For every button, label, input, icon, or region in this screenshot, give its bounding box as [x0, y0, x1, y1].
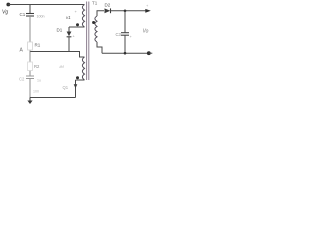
wire top rail from Vg to primary winding top — [8, 4, 84, 6]
transformer T1 reset winding n2 — [82, 57, 84, 80]
ground symbol at bottom rail left end — [27, 98, 32, 105]
wire n2 bottom lead going left — [76, 79, 85, 81]
svg-text:C2: C2 — [19, 77, 25, 82]
wire output bottom rail — [102, 52, 148, 54]
resistor R1 — [28, 42, 33, 50]
svg-text:Vg: Vg — [2, 10, 8, 16]
wire bottom rail — [30, 97, 76, 99]
transformer T1 primary winding n1 — [82, 5, 84, 28]
svg-text:iM: iM — [60, 64, 65, 69]
junction node top of C3 — [124, 10, 127, 13]
svg-text:R2: R2 — [34, 64, 40, 69]
capacitor C2 — [26, 76, 34, 79]
capacitor C1 — [26, 14, 34, 17]
output negative terminal dot — [147, 51, 152, 55]
svg-text:+: + — [75, 9, 78, 14]
svg-text:+: + — [73, 35, 76, 39]
wire output top rail from D2 to terminal — [111, 10, 147, 12]
wire node A horizontal to D1 junction and step to winding n2 top — [30, 52, 85, 58]
svg-text:100n: 100n — [37, 15, 45, 19]
svg-text:D1: D1 — [57, 28, 63, 33]
wire from C1 down through R1 to node A — [29, 16, 31, 52]
svg-text:T1: T1 — [92, 1, 98, 6]
wire n1 bottom lead going left — [69, 26, 85, 28]
polarity dot of winding n3 — [92, 21, 95, 24]
transformer T1 core — [87, 2, 89, 81]
output positive terminal arrow — [145, 9, 151, 13]
diode D1 — [67, 32, 72, 37]
capacitor C3 — [121, 33, 129, 36]
svg-text:A: A — [20, 48, 24, 54]
wire n3 bottom lead down to output bottom rail — [97, 42, 102, 53]
wire node A down through R2 to C2 — [29, 52, 31, 77]
svg-text:1u: 1u — [37, 79, 41, 83]
polarity dot of winding n1 — [76, 23, 79, 26]
transistor Q1 switch branch with current arrow — [74, 80, 78, 98]
polarity dot of winding n2 — [76, 76, 79, 79]
diode D2 — [105, 8, 111, 13]
svg-text:+: + — [146, 3, 149, 8]
wire C1 branch stub from top rail — [29, 5, 31, 14]
wire C3 branch lower — [124, 35, 126, 53]
wire from D1 cathode down to node A line — [68, 37, 70, 52]
resistor R2 — [28, 62, 33, 71]
svg-text:v1: v1 — [66, 15, 71, 20]
svg-text:R1: R1 — [35, 43, 41, 48]
node Vg input terminal dot — [6, 3, 10, 7]
wire from n1 lead down to diode D1 — [68, 27, 70, 32]
svg-text:Q1: Q1 — [63, 85, 69, 90]
svg-text:C1: C1 — [20, 12, 26, 17]
wire C3 branch upper — [124, 11, 126, 33]
svg-text:100: 100 — [33, 90, 39, 94]
junction node bottom of C3 — [124, 52, 127, 55]
svg-text:Vo: Vo — [143, 29, 149, 35]
wire n3 top lead up to output top rail — [97, 11, 104, 16]
svg-text:C3: C3 — [116, 32, 122, 37]
svg-text:+: + — [130, 35, 133, 39]
svg-text:D2: D2 — [105, 3, 111, 8]
wire C2 bottom down to bottom rail — [29, 79, 31, 98]
transformer T1 secondary winding n3 — [95, 16, 97, 42]
